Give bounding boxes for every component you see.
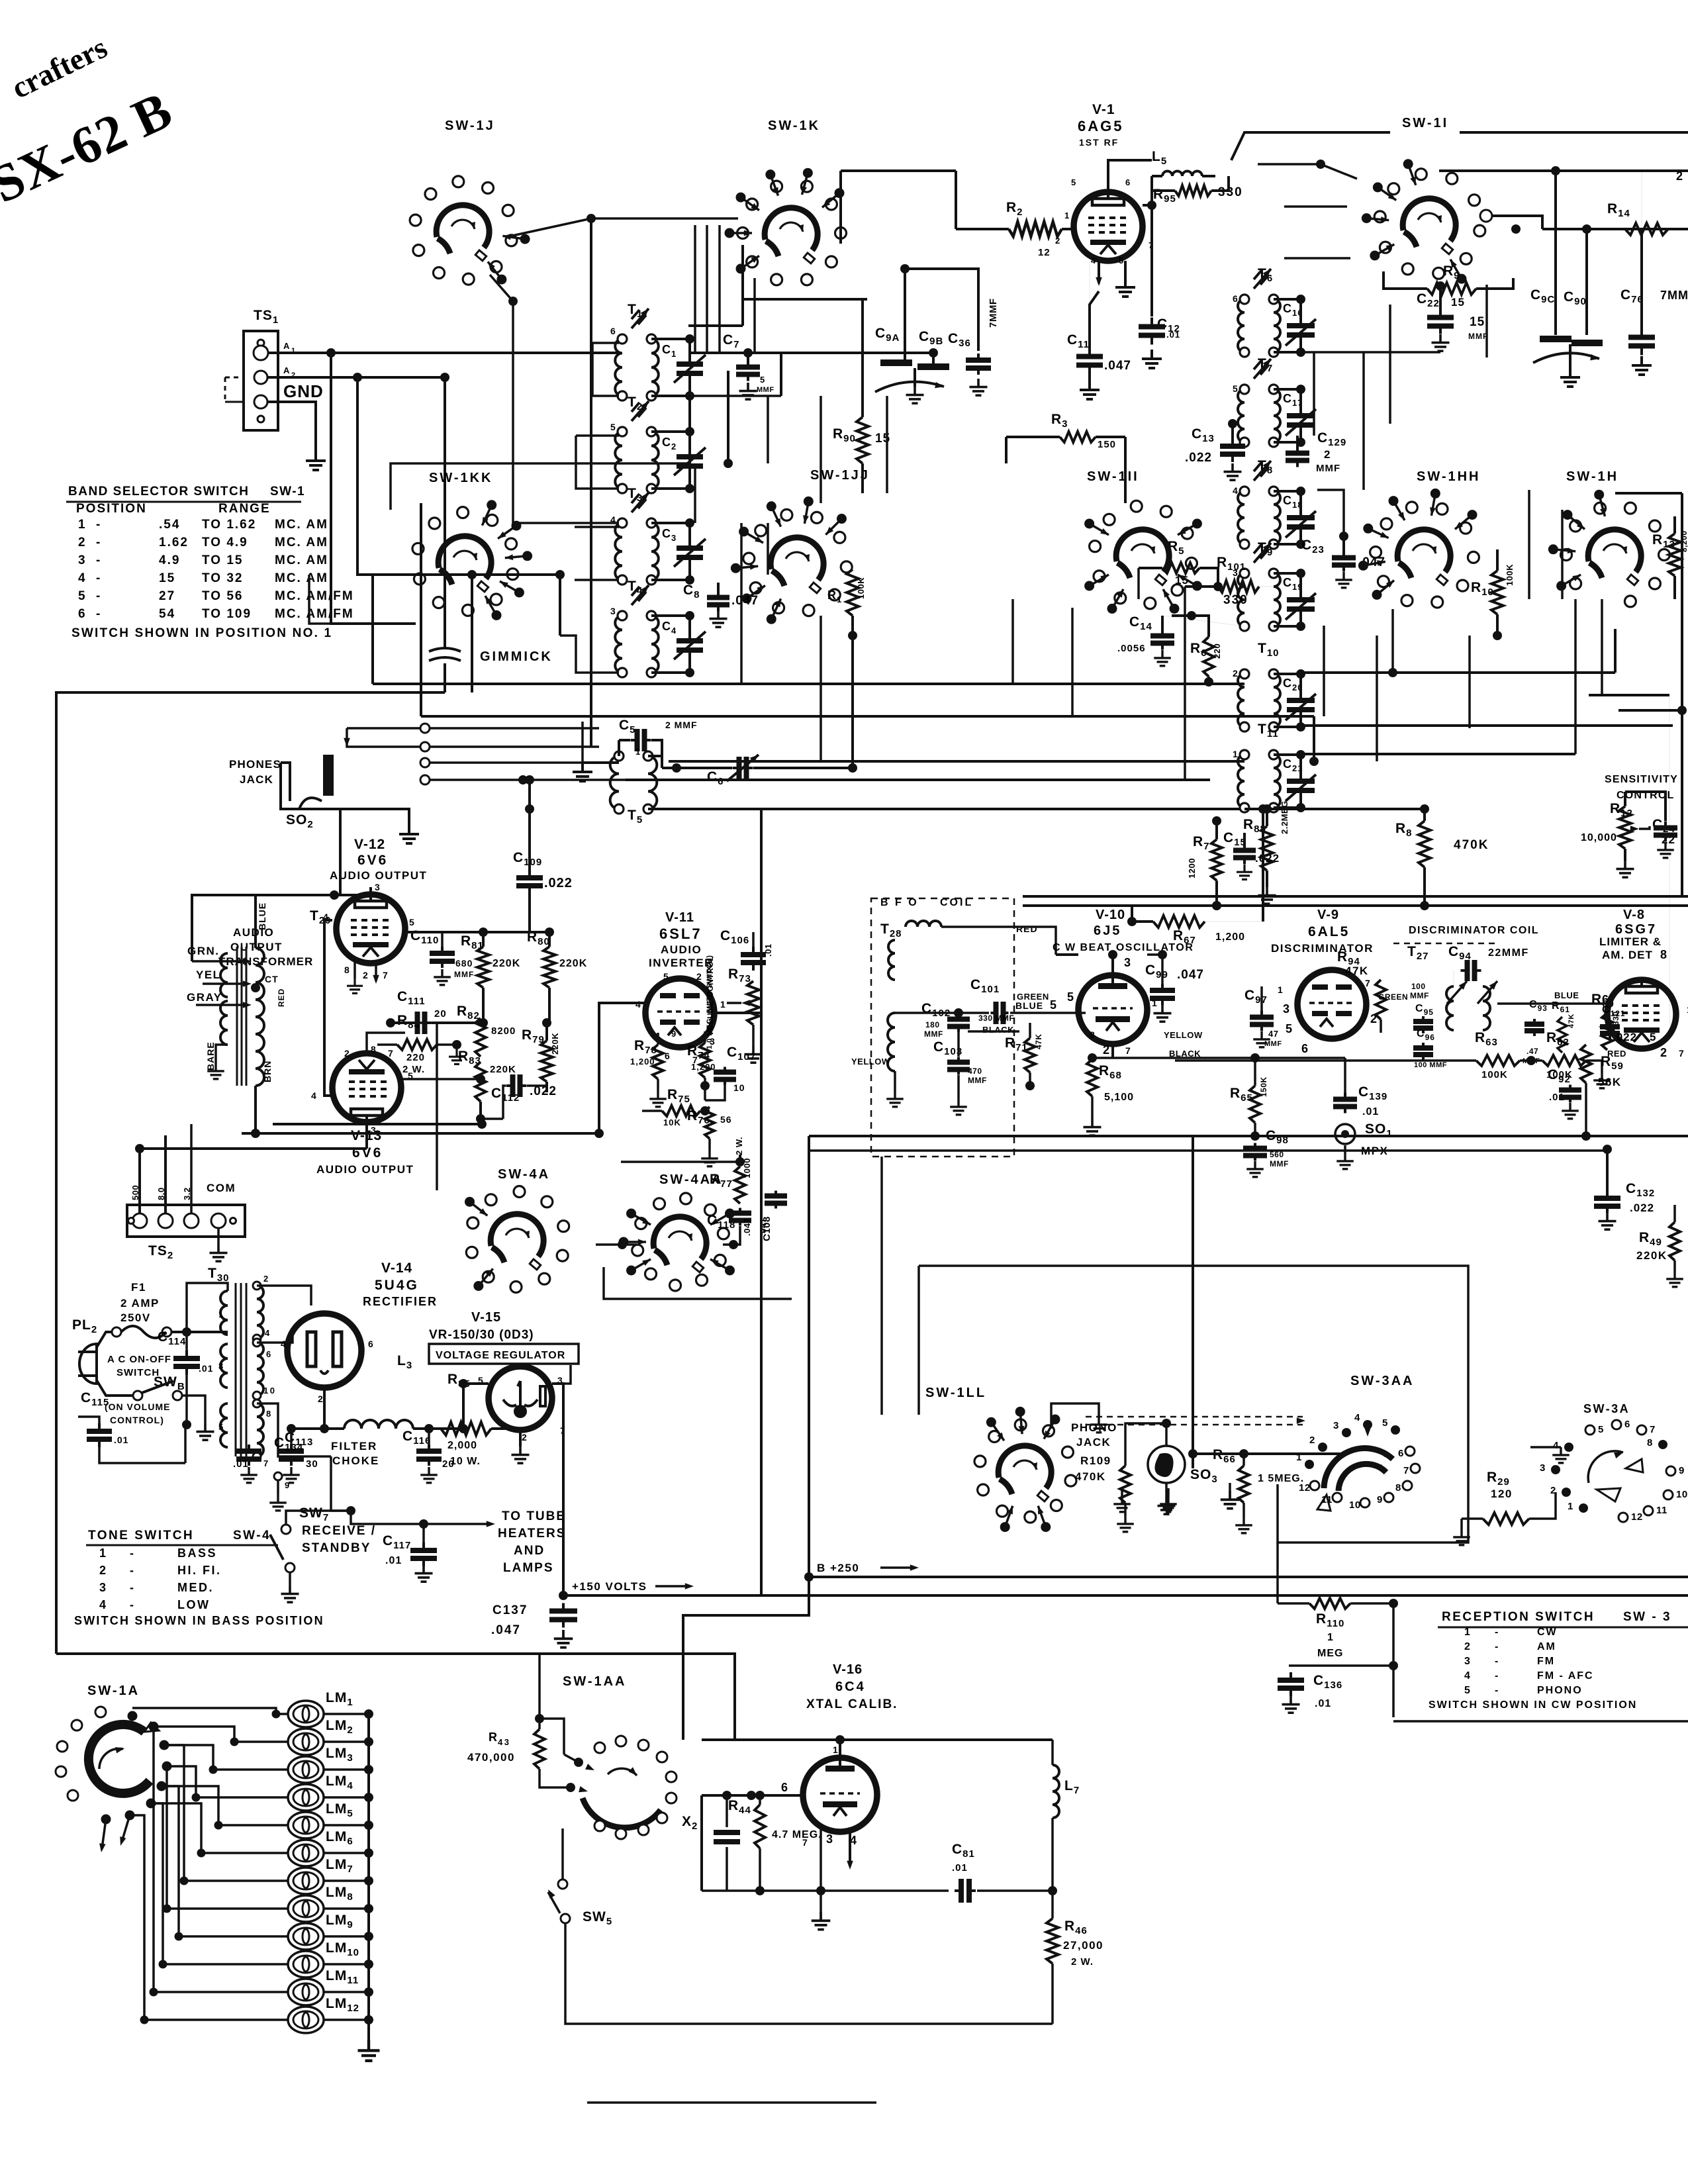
wire R65/C139 bus	[1092, 1057, 1345, 1059]
grounds row	[1121, 1488, 1123, 1496]
svg-text:6AL5: 6AL5	[1308, 924, 1350, 939]
wire V-12 top	[256, 894, 371, 896]
wires BFO	[941, 927, 1056, 955]
svg-text:BLACK: BLACK	[1169, 1049, 1201, 1059]
svg-text:5: 5	[1598, 1424, 1604, 1435]
svg-text:TO 32: TO 32	[202, 571, 243, 585]
svg-text:DISCRIMINATOR COIL: DISCRIMINATOR COIL	[1409, 925, 1539, 936]
svg-text:MMF: MMF	[1316, 463, 1340, 474]
svg-text:1.0 MEG. (WITH SWITCH): 1.0 MEG. (WITH SWITCH)	[706, 955, 714, 1049]
svg-text:3: 3	[1333, 1420, 1339, 1431]
svg-text:10: 10	[263, 1386, 276, 1396]
svg-text:-: -	[96, 518, 102, 532]
svg-text:54: 54	[159, 607, 175, 621]
svg-text:RED: RED	[1016, 924, 1038, 934]
svg-text:.01: .01	[1166, 330, 1180, 340]
svg-text:BLUE: BLUE	[1554, 990, 1579, 1000]
svg-text:(ON VOLUME: (ON VOLUME	[105, 1401, 170, 1412]
bus wire y1354	[1023, 895, 1688, 898]
svg-text:BASS: BASS	[177, 1546, 217, 1560]
svg-text:SW-4A: SW-4A	[498, 1167, 550, 1182]
svg-text:GIMMICK: GIMMICK	[480, 649, 553, 664]
svg-text:3: 3	[610, 606, 617, 616]
svg-text:COM: COM	[207, 1182, 236, 1194]
svg-text:TO 15: TO 15	[202, 553, 243, 567]
arrow into jack	[344, 738, 350, 747]
svg-text:RECEPTION SWITCH: RECEPTION SWITCH	[1442, 1610, 1595, 1624]
svg-text:4: 4	[99, 1598, 107, 1611]
svg-text:RANGE: RANGE	[218, 502, 271, 516]
svg-text:B +250: B +250	[817, 1562, 859, 1574]
wires T30 right to V-14	[257, 1286, 311, 1306]
svg-text:HI. FI.: HI. FI.	[177, 1564, 222, 1577]
svg-text:SW - 3: SW - 3	[1623, 1610, 1671, 1624]
svg-text:MMF: MMF	[454, 970, 474, 979]
svg-text:220: 220	[1212, 643, 1222, 659]
svg-text:SENSITIVITY: SENSITIVITY	[1605, 774, 1678, 785]
svg-text:DISCRIMINATOR: DISCRIMINATOR	[1271, 942, 1374, 955]
lamp LM2	[288, 1729, 324, 1755]
svg-text:5: 5	[663, 971, 670, 982]
svg-text:GRAY: GRAY	[187, 991, 222, 1004]
svg-text:10 W.: 10 W.	[450, 1456, 481, 1467]
lamp LM8	[288, 1895, 324, 1922]
svg-text:7: 7	[1650, 1424, 1656, 1435]
svg-text:2: 2	[344, 1048, 351, 1059]
svg-text:2 W.: 2 W.	[734, 1137, 744, 1155]
tube V-13 6V6	[332, 1053, 401, 1122]
svg-text:COIL: COIL	[940, 897, 973, 908]
svg-text:SW-4: SW-4	[233, 1529, 271, 1543]
lamp LM3	[288, 1756, 324, 1783]
svg-text:GREEN: GREEN	[1017, 992, 1049, 1002]
capacitor C136	[1392, 1603, 1395, 1717]
svg-text:43: 43	[498, 1737, 510, 1747]
lamp LM7	[288, 1868, 324, 1894]
cathode leads V-16	[820, 1828, 822, 1891]
wires SW-3AA area	[1193, 1452, 1340, 1455]
svg-text:V-10: V-10	[1096, 908, 1125, 922]
svg-text:.022: .022	[544, 876, 573, 890]
svg-text:8: 8	[371, 1044, 377, 1055]
svg-text:TO 4.9: TO 4.9	[202, 536, 248, 549]
svg-text:9: 9	[671, 1029, 678, 1039]
svg-text:2: 2	[99, 1564, 107, 1577]
resistor R110	[1309, 1598, 1350, 1609]
svg-text:2,000: 2,000	[447, 1440, 477, 1451]
svg-text:GREEN: GREEN	[1378, 992, 1408, 1002]
svg-text:330 MMF: 330 MMF	[978, 1014, 1014, 1023]
svg-text:CHOKE: CHOKE	[332, 1454, 379, 1467]
svg-text:MED.: MED.	[177, 1581, 214, 1594]
lamp LM1	[288, 1701, 324, 1727]
wires SW-4AA box	[621, 1161, 740, 1163]
svg-text:2: 2	[1464, 1641, 1471, 1652]
phones jack	[229, 755, 409, 830]
svg-text:150: 150	[1098, 439, 1116, 450]
svg-text:SW-1KK: SW-1KK	[429, 471, 493, 485]
band selector switch table	[66, 485, 354, 640]
svg-text:A C ON-OFF: A C ON-OFF	[107, 1354, 171, 1365]
svg-text:STANDBY: STANDBY	[302, 1541, 371, 1555]
wires T10 T11 right extensions	[1301, 671, 1615, 674]
svg-text:-: -	[130, 1564, 136, 1577]
svg-text:7MMF: 7MMF	[988, 299, 999, 328]
svg-text:10K: 10K	[663, 1117, 681, 1127]
svg-text:100K: 100K	[1481, 1069, 1508, 1080]
svg-text:6J5: 6J5	[1094, 924, 1121, 938]
svg-text:220K: 220K	[1636, 1249, 1667, 1262]
svg-text:-: -	[1495, 1627, 1500, 1638]
svg-text:100 MMF: 100 MMF	[1414, 1061, 1447, 1069]
ground lamps bus	[358, 2040, 380, 2061]
svg-text:100K: 100K	[856, 577, 866, 599]
wire vertical x1332	[880, 1157, 883, 1415]
svg-text:AUDIO: AUDIO	[233, 926, 274, 939]
svg-text:6: 6	[266, 1349, 273, 1359]
svg-text:7: 7	[1403, 1465, 1409, 1476]
wires SW-1KK box	[391, 463, 690, 510]
svg-text:SWITCH SHOWN IN POSITION NO. 1: SWITCH SHOWN IN POSITION NO. 1	[71, 626, 332, 640]
cathode leads	[353, 961, 356, 978]
svg-text:6V6: 6V6	[357, 853, 388, 868]
svg-text:15: 15	[1470, 315, 1485, 329]
svg-text:MEG: MEG	[1317, 1648, 1343, 1659]
svg-text:6AG5: 6AG5	[1078, 118, 1123, 134]
svg-text:VR-150/30 (0D3): VR-150/30 (0D3)	[429, 1328, 534, 1342]
svg-text:470K: 470K	[1454, 838, 1489, 852]
svg-text:-: -	[1495, 1656, 1500, 1667]
svg-text:10: 10	[1349, 1499, 1361, 1511]
SW-1A rotor	[89, 1725, 150, 1793]
svg-text:RECEIVE /: RECEIVE /	[302, 1524, 376, 1538]
svg-text:4: 4	[1091, 256, 1098, 265]
svg-text:A: A	[283, 341, 291, 351]
svg-text:6: 6	[1624, 1419, 1630, 1430]
svg-text:AM: AM	[1537, 1641, 1556, 1652]
terminal strip TS2	[127, 1205, 245, 1237]
box SW-3AA	[1278, 1423, 1468, 1543]
svg-text:10: 10	[1676, 1489, 1688, 1500]
svg-text:TO TUBE: TO TUBE	[502, 1509, 566, 1523]
svg-text:27: 27	[159, 589, 175, 603]
svg-text:PHONO: PHONO	[1071, 1421, 1117, 1434]
svg-text:2: 2	[1309, 1435, 1315, 1446]
svg-text:AUDIO OUTPUT: AUDIO OUTPUT	[330, 869, 427, 882]
wires V13 plate/grid	[402, 1078, 481, 1080]
svg-text:470K: 470K	[1075, 1470, 1106, 1483]
svg-text:MMF: MMF	[968, 1076, 987, 1085]
terminal strip TS1	[225, 308, 324, 430]
svg-text:1: 1	[1278, 984, 1284, 995]
svg-text:4: 4	[1553, 1440, 1559, 1451]
bus wires	[373, 683, 1244, 685]
svg-text:5: 5	[1464, 1685, 1471, 1696]
svg-text:.54: .54	[159, 518, 180, 532]
svg-text:2: 2	[1676, 169, 1685, 183]
svg-text:2 AMP: 2 AMP	[120, 1297, 160, 1309]
svg-text:BAND SELECTOR SWITCH: BAND SELECTOR SWITCH	[68, 485, 249, 499]
svg-text:GND: GND	[283, 381, 324, 401]
svg-text:C137: C137	[492, 1603, 528, 1617]
svg-text:220: 220	[406, 1052, 425, 1063]
wire SW-3AA feed	[919, 1266, 1468, 1423]
svg-text:330: 330	[1218, 185, 1243, 199]
svg-text:2 MMF: 2 MMF	[665, 720, 698, 730]
svg-text:.047: .047	[1104, 359, 1131, 373]
T27 coils	[1446, 986, 1454, 1030]
svg-text:1200: 1200	[1187, 858, 1197, 878]
svg-text:5: 5	[1050, 998, 1058, 1012]
svg-text:8,200: 8,200	[1679, 530, 1688, 552]
svg-text:8200: 8200	[491, 1025, 516, 1037]
svg-text:F1: F1	[131, 1281, 146, 1294]
rotary switch SW-1T	[1362, 159, 1485, 283]
svg-text:1: 1	[1064, 211, 1071, 220]
svg-text:AM. DET: AM. DET	[1602, 949, 1653, 961]
svg-text:.01: .01	[1362, 1106, 1379, 1117]
svg-text:5: 5	[78, 589, 87, 603]
svg-text:5: 5	[760, 375, 767, 385]
svg-text:SW-1LL: SW-1LL	[925, 1386, 986, 1400]
wire L5 to C12	[1147, 201, 1156, 210]
svg-text:5: 5	[1067, 990, 1076, 1004]
svg-text:SW-1J: SW-1J	[445, 119, 495, 133]
svg-text:HEATERS: HEATERS	[498, 1527, 566, 1541]
svg-text:2: 2	[696, 971, 703, 982]
svg-text:12: 12	[1038, 247, 1051, 258]
svg-text:YEL: YEL	[196, 969, 221, 981]
svg-text:BLUE: BLUE	[1015, 1000, 1043, 1011]
wires TS2 up	[140, 1149, 367, 1213]
coil L7	[1053, 1765, 1059, 1818]
svg-text:-: -	[1495, 1670, 1500, 1682]
bottom wire	[702, 1889, 949, 1892]
svg-text:4: 4	[311, 1090, 318, 1101]
svg-text:2 W.: 2 W.	[402, 1064, 425, 1075]
wire B+ staircase to V-16	[683, 1577, 809, 1740]
svg-text:6: 6	[665, 1051, 671, 1061]
svg-text:R109: R109	[1080, 1454, 1111, 1467]
wire A1 to T1	[268, 352, 619, 354]
svg-text:1: 1	[218, 1309, 225, 1319]
svg-text:SW-1JJ: SW-1JJ	[810, 468, 870, 483]
svg-text:MMF: MMF	[1270, 1159, 1289, 1168]
junction T9 bottom	[1187, 611, 1196, 620]
contacts SW-1AA	[574, 1758, 583, 1767]
svg-text:-: -	[130, 1581, 136, 1594]
svg-text:7: 7	[1679, 1048, 1685, 1059]
svg-text:-: -	[96, 553, 102, 567]
svg-text:180: 180	[925, 1020, 940, 1029]
svg-text:.022: .022	[1255, 852, 1280, 865]
wire to heaters	[351, 1511, 490, 1524]
svg-text:PHONO: PHONO	[1537, 1685, 1583, 1696]
wires C9 bus	[743, 298, 867, 301]
lamp LM12	[288, 2007, 324, 2033]
svg-text:+150 VOLTS: +150 VOLTS	[572, 1580, 647, 1593]
svg-text:56K: 56K	[1598, 1076, 1622, 1088]
wires V-11	[599, 1003, 645, 1133]
svg-text:.01: .01	[114, 1435, 128, 1445]
svg-text:.01: .01	[952, 1862, 968, 1874]
svg-text:4.9: 4.9	[159, 553, 180, 567]
switch SW5	[558, 1879, 567, 1889]
svg-text:5: 5	[1286, 1022, 1294, 1035]
wires jack contacts	[430, 727, 599, 730]
svg-text:100: 100	[1411, 982, 1426, 991]
svg-text:V-11: V-11	[665, 910, 694, 925]
svg-text:CONTROL): CONTROL)	[110, 1415, 164, 1425]
svg-text:2: 2	[1324, 448, 1332, 461]
svg-text:1: 1	[1464, 1627, 1471, 1638]
svg-text:220K: 220K	[490, 1064, 516, 1075]
svg-text:6: 6	[1398, 1448, 1404, 1459]
lamps LM1..LM12	[367, 1714, 370, 2040]
svg-text:8: 8	[1660, 948, 1669, 961]
svg-text:TO 1.62: TO 1.62	[202, 518, 256, 532]
svg-text:LIMITER &: LIMITER &	[1599, 935, 1662, 948]
svg-text:SWITCH SHOWN IN CW POSITIO: SWITCH SHOWN IN CW POSITION	[1429, 1699, 1637, 1711]
svg-text:.047: .047	[731, 594, 759, 608]
svg-text:1: 1	[833, 1744, 839, 1755]
junction + bus to R14	[1551, 166, 1560, 175]
svg-text:-: -	[130, 1598, 136, 1611]
svg-text:MC. AM: MC. AM	[275, 536, 328, 549]
svg-text:BRN: BRN	[262, 1061, 273, 1082]
svg-text:7: 7	[1365, 978, 1372, 988]
svg-text:BLACK: BLACK	[982, 1025, 1014, 1035]
cathode arrow	[1098, 261, 1100, 283]
svg-text:1 5MEG.: 1 5MEG.	[1258, 1473, 1304, 1484]
jack contacts	[420, 724, 430, 733]
svg-text:3: 3	[78, 553, 87, 567]
svg-text:7: 7	[263, 1458, 270, 1468]
wire GND to ground	[268, 402, 316, 451]
capacitor gimmick	[429, 622, 461, 692]
svg-text:3: 3	[375, 882, 381, 892]
svg-text:.047: .047	[491, 1623, 521, 1637]
wires right edge verticals	[1669, 695, 1670, 1033]
svg-text:AUDIO OUTPUT: AUDIO OUTPUT	[316, 1163, 414, 1176]
svg-text:47K: 47K	[1568, 1014, 1575, 1028]
lamp LM6	[288, 1840, 324, 1866]
wire V-1 plate up	[1108, 160, 1152, 192]
svg-text:6SG7: 6SG7	[1615, 922, 1657, 937]
svg-text:6: 6	[1125, 177, 1132, 187]
svg-text:1: 1	[1296, 1452, 1302, 1463]
ground TS1	[306, 451, 326, 470]
svg-text:SW-1K: SW-1K	[768, 119, 820, 133]
wires audio left verticals	[192, 895, 256, 961]
svg-text:30: 30	[306, 1458, 318, 1470]
svg-text:-: -	[96, 589, 102, 603]
svg-text:POSITION: POSITION	[76, 502, 147, 516]
svg-text:MMF: MMF	[757, 386, 774, 394]
wire plate bus	[702, 1738, 1053, 1741]
lamp LM10	[288, 1951, 324, 1977]
svg-text:5U4G: 5U4G	[375, 1278, 419, 1293]
svg-text:3: 3	[99, 1581, 107, 1594]
svg-text:MMF: MMF	[1410, 991, 1429, 1000]
svg-text:MC. AM: MC. AM	[275, 553, 328, 567]
wire A2 to gimmick	[268, 376, 445, 379]
svg-text:1: 1	[1327, 1632, 1334, 1643]
svg-text:1: 1	[1568, 1501, 1573, 1512]
svg-text:SW-1A: SW-1A	[87, 1684, 140, 1698]
svg-text:2: 2	[78, 536, 87, 549]
svg-text:7: 7	[383, 970, 389, 980]
svg-text:15: 15	[159, 571, 175, 585]
svg-text:5: 5	[1650, 1031, 1658, 1043]
svg-text:2: 2	[263, 1274, 270, 1284]
svg-text:3: 3	[1283, 1002, 1291, 1016]
svg-text:MC. AM/FM: MC. AM/FM	[275, 589, 354, 603]
jack SO1 MPX	[1335, 1124, 1355, 1144]
wire SW-1J to right	[512, 218, 591, 236]
svg-text:SW-1II: SW-1II	[1087, 469, 1139, 484]
svg-text:3: 3	[1540, 1462, 1546, 1474]
svg-text:150K: 150K	[1259, 1076, 1268, 1097]
BFO coil dashed box	[871, 898, 1014, 1157]
svg-text:TO 109: TO 109	[202, 607, 252, 621]
wire left border	[56, 692, 445, 1654]
svg-text:2.2MEG.: 2.2MEG.	[1280, 798, 1289, 834]
svg-text:MC. AM: MC. AM	[275, 518, 328, 532]
grid wire	[751, 1794, 805, 1797]
svg-text:SW-1H: SW-1H	[1566, 469, 1618, 484]
svg-text:20: 20	[434, 1008, 447, 1020]
svg-text:4: 4	[78, 571, 87, 585]
svg-text:6: 6	[1301, 1042, 1310, 1055]
svg-text:12: 12	[1631, 1511, 1643, 1523]
ground V-1	[1124, 261, 1127, 278]
svg-text:5: 5	[218, 1422, 225, 1432]
svg-text:V-15: V-15	[471, 1310, 501, 1325]
wire R2 left	[955, 171, 957, 229]
svg-text:SW-1AA: SW-1AA	[563, 1674, 627, 1689]
T29 lead wires	[192, 960, 246, 963]
svg-text:V-9: V-9	[1317, 908, 1339, 922]
lamp LM9	[288, 1923, 324, 1950]
svg-text:1: 1	[99, 1546, 107, 1560]
svg-text:2: 2	[1660, 1046, 1669, 1059]
svg-text:SWITCH SHOWN IN BASS POSITION: SWITCH SHOWN IN BASS POSITION	[74, 1614, 324, 1627]
svg-text:MMF: MMF	[1468, 332, 1488, 341]
svg-text:1ST RF: 1ST RF	[1079, 137, 1119, 148]
capacitor C134b	[236, 1445, 261, 1466]
svg-text:4: 4	[1354, 1412, 1360, 1423]
svg-text:7: 7	[1125, 1045, 1132, 1056]
svg-text:220K: 220K	[559, 958, 587, 969]
extra density wires top	[591, 217, 738, 220]
svg-text:11: 11	[1321, 1494, 1333, 1505]
svg-text:7MMF: 7MMF	[1660, 289, 1688, 302]
bus wire y1150	[669, 760, 1244, 763]
lamp LM4	[288, 1784, 324, 1811]
svg-text:.022: .022	[1185, 451, 1212, 465]
svg-text:6: 6	[610, 326, 617, 336]
svg-text:3: 3	[826, 1832, 835, 1846]
svg-text:-: -	[96, 536, 102, 549]
svg-text:VOLTAGE REGULATOR: VOLTAGE REGULATOR	[436, 1350, 565, 1361]
svg-text:10: 10	[733, 1082, 745, 1093]
svg-text:.47: .47	[1526, 1047, 1538, 1056]
svg-text:5: 5	[1382, 1417, 1388, 1429]
svg-text:AUDIO: AUDIO	[661, 943, 702, 956]
ground left of SW-3A	[1530, 1446, 1561, 1448]
svg-text:27,000: 27,000	[1063, 1939, 1103, 1952]
